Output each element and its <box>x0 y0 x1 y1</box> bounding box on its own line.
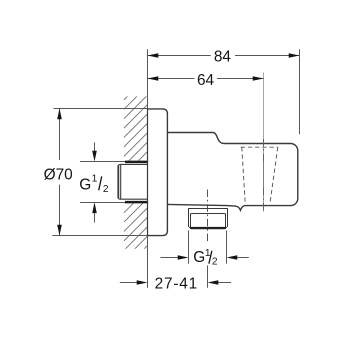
svg-text:G: G <box>193 249 205 266</box>
holder centerline dash-dot <box>263 139 265 161</box>
outlet centerline dash-dot <box>207 190 209 242</box>
nut bottom chamfer band <box>189 227 228 229</box>
extension line for 64 through holder <box>263 72 265 211</box>
dimension G1/2 left (inlet thread) <box>80 142 125 222</box>
svg-text:Ø70: Ø70 <box>44 167 73 184</box>
wall hole upper thick edge <box>125 161 148 164</box>
label G1/2 bottom <box>193 248 218 268</box>
flange (escutcheon) Ø70 <box>148 109 168 236</box>
bottom outlet nut G1/2 <box>188 209 228 228</box>
extension line below outlet centerline for 27-41 <box>207 266 209 288</box>
body outline: elbow + shower holder <box>167 133 297 211</box>
wall hole lower thick edge <box>125 201 148 204</box>
wall hatching <box>124 76 148 288</box>
dimension 64 <box>148 78 264 80</box>
wall surface line (extension line for 84, 64, 27-41) <box>147 49 149 287</box>
extension line for 84 at holder right <box>299 49 301 134</box>
pipe G1/2 inlet through wall <box>118 164 147 199</box>
flange left edge on wall <box>147 109 149 236</box>
dimension Ø70 <box>52 109 147 236</box>
dimension 84 <box>148 55 300 57</box>
svg-text:64: 64 <box>197 72 215 89</box>
svg-text:G: G <box>79 176 91 193</box>
dimension 27-41 <box>120 282 231 284</box>
svg-text:1: 1 <box>92 174 98 185</box>
svg-text:2: 2 <box>103 184 109 195</box>
svg-text:1: 1 <box>205 248 211 259</box>
holder cone hidden edges (dashed) <box>241 147 278 201</box>
label G1/2 left <box>79 174 109 196</box>
svg-text:84: 84 <box>214 48 232 65</box>
dimension G1/2 bottom (outlet thread) <box>160 231 248 264</box>
svg-text:27-41: 27-41 <box>155 276 198 293</box>
svg-text:2: 2 <box>212 257 218 268</box>
